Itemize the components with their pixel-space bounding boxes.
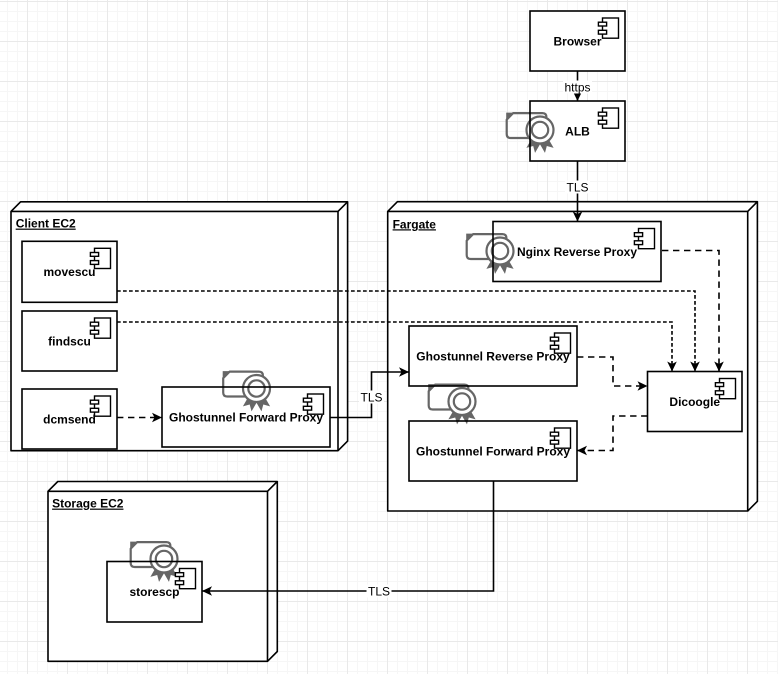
svg-text:Dicoogle: Dicoogle	[669, 395, 720, 409]
svg-text:Nginx Reverse Proxy: Nginx Reverse Proxy	[517, 245, 637, 259]
svg-text:TLS: TLS	[368, 584, 390, 598]
svg-text:Client EC2: Client EC2	[16, 217, 76, 231]
svg-text:Storage EC2: Storage EC2	[52, 497, 124, 511]
svg-text:Fargate: Fargate	[393, 217, 437, 231]
svg-text:dcmsend: dcmsend	[43, 412, 96, 426]
svg-text:storescp: storescp	[129, 585, 179, 599]
svg-text:movescu: movescu	[43, 265, 95, 279]
svg-text:Ghostunnel Forward Proxy: Ghostunnel Forward Proxy	[169, 410, 323, 424]
svg-text:findscu: findscu	[48, 334, 91, 348]
svg-text:Ghostunnel Forward Proxy: Ghostunnel Forward Proxy	[416, 444, 570, 458]
svg-text:ALB: ALB	[565, 124, 590, 138]
svg-text:Ghostunnel Reverse Proxy: Ghostunnel Reverse Proxy	[416, 349, 570, 363]
svg-text:TLS: TLS	[566, 180, 588, 194]
svg-text:Browser: Browser	[553, 34, 601, 48]
svg-text:https: https	[564, 80, 590, 94]
svg-text:TLS: TLS	[360, 390, 382, 404]
